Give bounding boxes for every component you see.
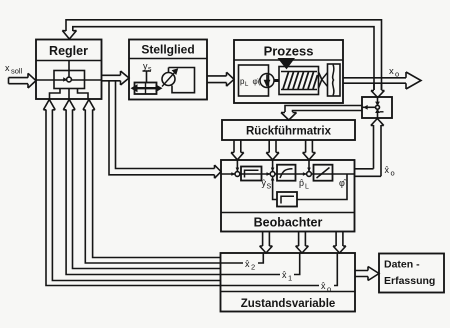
svg-text:φ̇(: φ̇( xyxy=(253,77,261,86)
svg-text:Rückführmatrix: Rückführmatrix xyxy=(246,126,332,138)
svg-text:Prozess: Prozess xyxy=(264,44,314,59)
svg-text:S: S xyxy=(267,184,272,191)
svg-text:Erfassung: Erfassung xyxy=(384,275,435,287)
svg-text:x: x xyxy=(5,63,10,73)
svg-text:L: L xyxy=(305,184,309,191)
svg-text:p̂: p̂ xyxy=(299,178,304,188)
svg-text:Regler: Regler xyxy=(49,44,88,58)
svg-text:s: s xyxy=(148,66,152,73)
svg-text:x̂: x̂ xyxy=(321,281,326,291)
svg-text:o: o xyxy=(327,284,331,293)
svg-text:1: 1 xyxy=(288,274,292,283)
svg-text:x̂: x̂ xyxy=(282,270,287,280)
svg-text:o: o xyxy=(395,70,399,79)
svg-text:Daten -: Daten - xyxy=(384,259,420,271)
svg-text:soll: soll xyxy=(11,67,23,76)
svg-text:2: 2 xyxy=(251,263,255,272)
svg-text:x̂: x̂ xyxy=(245,259,250,269)
svg-text:o: o xyxy=(391,169,395,178)
svg-text:Stellglied: Stellglied xyxy=(141,43,194,57)
svg-text:x: x xyxy=(389,66,394,77)
svg-text:Zustandsvariable: Zustandsvariable xyxy=(241,298,336,310)
svg-text:x̂: x̂ xyxy=(385,165,390,175)
svg-text:Beobachter: Beobachter xyxy=(254,216,323,230)
